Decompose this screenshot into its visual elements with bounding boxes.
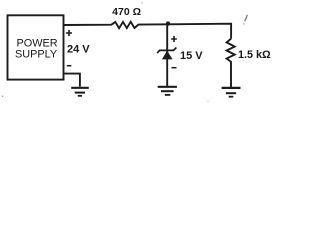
svg-text:15 V: 15 V [180,50,203,62]
svg-text:POWER: POWER [17,37,58,49]
svg-text:470 Ω: 470 Ω [112,6,141,18]
svg-text:SUPPLY: SUPPLY [15,49,58,61]
svg-text:24 V: 24 V [67,44,90,56]
svg-text:1.5 kΩ: 1.5 kΩ [238,49,271,61]
